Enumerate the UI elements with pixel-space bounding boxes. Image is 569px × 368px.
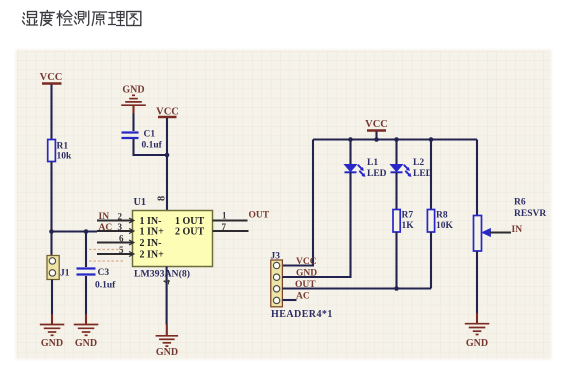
- svg-text:2: 2: [118, 212, 123, 222]
- svg-text:IN: IN: [512, 225, 523, 235]
- ground (under J1): [40, 325, 65, 350]
- title 湿度检测原理图: [23, 11, 141, 26]
- svg-text:1 IN-: 1 IN-: [140, 216, 162, 227]
- connector J1: [47, 256, 70, 280]
- svg-text:RESVR: RESVR: [514, 209, 546, 219]
- resistor R7: [393, 210, 414, 233]
- svg-text:5: 5: [119, 245, 124, 255]
- svg-text:HEADER4*1: HEADER4*1: [271, 309, 333, 320]
- ground (under R6): [465, 324, 490, 349]
- junction node rail/L2: [394, 137, 399, 142]
- svg-text:J1: J1: [60, 269, 70, 279]
- pin 4 (bottom): [163, 267, 173, 325]
- svg-text:2 OUT: 2 OUT: [175, 227, 205, 238]
- wire AC to C3: [85, 232, 87, 268]
- svg-text:VCC: VCC: [296, 257, 317, 267]
- svg-text:AC: AC: [296, 292, 310, 302]
- power port VCC (left): [40, 72, 63, 140]
- svg-text:VCC: VCC: [40, 72, 63, 83]
- potentiometer R6: [474, 198, 547, 252]
- wire L2 to R7: [395, 172, 397, 209]
- connector J3: [271, 252, 333, 321]
- junction node rail/R8: [429, 137, 434, 142]
- junction node rail/VCC: [374, 137, 379, 142]
- svg-text:VCC: VCC: [365, 119, 388, 130]
- wire J3 pin2 GND row: [282, 276, 350, 278]
- junction node rail/L1: [348, 137, 353, 142]
- svg-text:2 IN-: 2 IN-: [140, 238, 162, 249]
- svg-text:0.1uf: 0.1uf: [95, 281, 116, 291]
- wire AC row: [52, 230, 98, 232]
- svg-text:R7: R7: [402, 211, 414, 221]
- svg-text:L1: L1: [367, 158, 378, 168]
- wire rail to R6: [476, 140, 478, 216]
- ground (under U1): [156, 324, 179, 358]
- svg-text:OUT: OUT: [249, 211, 270, 221]
- pin 7 stub: [213, 222, 249, 232]
- pin 1 stub: [213, 211, 248, 221]
- svg-text:1K: 1K: [402, 221, 415, 231]
- svg-text:GND: GND: [41, 338, 63, 349]
- svg-text:1 IN+: 1 IN+: [140, 227, 165, 238]
- svg-text:L2: L2: [413, 158, 424, 168]
- svg-text:1 OUT: 1 OUT: [175, 216, 205, 227]
- svg-text:C1: C1: [144, 130, 156, 140]
- svg-text:7: 7: [222, 222, 227, 232]
- ground (under C3): [74, 325, 99, 350]
- pin 5 stub: [97, 245, 134, 257]
- svg-text:LED: LED: [413, 169, 433, 179]
- svg-text:1: 1: [222, 211, 227, 221]
- error marker pin 5: [89, 260, 124, 262]
- resistor R1: [48, 140, 72, 162]
- pin 3 stub: [97, 222, 134, 234]
- svg-text:LED: LED: [367, 169, 387, 179]
- svg-text:R8: R8: [436, 211, 448, 221]
- svg-text:AC: AC: [99, 223, 113, 233]
- wire R8 to OUT row: [430, 232, 432, 289]
- svg-text:GND: GND: [122, 85, 144, 96]
- wire J3 pin3 OUT row: [282, 287, 431, 289]
- wire rail to R8: [430, 140, 432, 210]
- wire R6 to ground: [476, 251, 478, 314]
- wire top rail: [313, 138, 477, 140]
- svg-text:6: 6: [119, 234, 124, 244]
- wire R7 to OUT row: [395, 232, 397, 289]
- power port VCC (right rail): [365, 119, 388, 140]
- svg-text:GND: GND: [466, 338, 488, 349]
- svg-text:10K: 10K: [436, 221, 454, 231]
- svg-text:R1: R1: [57, 142, 69, 152]
- schematic sheet: [16, 50, 552, 360]
- junction node C1/VCC: [165, 153, 170, 158]
- wire J3 pin4 AC stub: [282, 299, 296, 301]
- wire rail to J3 VCC: [282, 140, 313, 266]
- svg-text:8: 8: [157, 196, 168, 201]
- LED L1: [345, 158, 387, 179]
- wire C3 to ground: [85, 276, 87, 315]
- svg-text:4: 4: [163, 280, 173, 285]
- svg-text:0.1uf: 0.1uf: [142, 141, 163, 151]
- power port VCC (above U1): [156, 107, 179, 211]
- wire L1 to J3 GND row: [282, 172, 350, 277]
- svg-text:R6: R6: [514, 198, 526, 208]
- junction node R7/OUT row: [394, 286, 399, 291]
- svg-text:LM393AN(8): LM393AN(8): [134, 269, 190, 280]
- junction node R1/AC: [49, 229, 54, 234]
- op-amp U1: [133, 197, 213, 280]
- junction node C3/AC: [84, 229, 89, 234]
- capacitor C1: [122, 130, 163, 151]
- svg-text:IN: IN: [99, 212, 110, 222]
- svg-text:GND: GND: [156, 347, 178, 358]
- pin 8 (top): [157, 196, 168, 201]
- wire R1 to J1: [50, 162, 52, 256]
- LED L2: [391, 158, 433, 179]
- pin 6 stub: [97, 234, 134, 246]
- svg-text:3: 3: [118, 222, 123, 232]
- wire J1 to ground: [51, 280, 53, 315]
- wire rail to L1: [349, 140, 351, 165]
- wire rail to L2: [395, 140, 397, 165]
- wire GND to C1: [132, 105, 134, 114]
- wire C1 to VCC column: [134, 139, 168, 155]
- svg-text:C3: C3: [98, 268, 110, 278]
- svg-text:2 IN+: 2 IN+: [140, 250, 165, 261]
- resistor R8: [427, 210, 453, 233]
- svg-text:GND: GND: [75, 338, 97, 349]
- capacitor C3: [77, 268, 117, 291]
- pin 2 stub: [97, 212, 134, 224]
- error marker pin 6: [89, 249, 124, 251]
- ground (top, above C1): [121, 85, 146, 106]
- svg-text:10k: 10k: [57, 152, 73, 162]
- svg-text:U1: U1: [134, 197, 147, 208]
